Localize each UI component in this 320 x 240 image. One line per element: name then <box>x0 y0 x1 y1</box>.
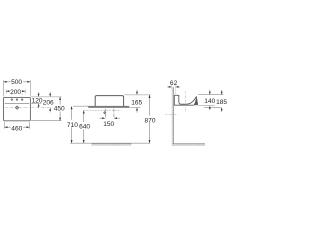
tap hole mid <box>16 99 18 101</box>
svg-text:120: 120 <box>32 98 43 105</box>
basin profile inner <box>174 95 196 104</box>
svg-text:206: 206 <box>43 100 54 107</box>
svg-text:870: 870 <box>144 117 155 124</box>
dim 200 <box>6 90 25 92</box>
svg-text:640: 640 <box>79 123 90 130</box>
dim 150 <box>99 117 119 119</box>
dim 165 <box>136 90 138 93</box>
svg-text:710: 710 <box>67 122 78 129</box>
extension lines 460 <box>4 122 29 129</box>
svg-text:140: 140 <box>204 98 215 105</box>
dim 206 <box>49 92 51 95</box>
svg-text:62: 62 <box>170 80 178 87</box>
dim 120 <box>38 92 40 95</box>
floor line front <box>70 142 150 144</box>
dim 450 <box>59 97 61 121</box>
basin vertical centerline <box>185 91 187 112</box>
dim 185 <box>221 90 223 93</box>
basin profile outer <box>174 95 194 105</box>
drain diamond front <box>104 112 106 114</box>
centerline through drain <box>5 107 52 109</box>
drain centerline <box>104 109 106 119</box>
dim 62 extension dashes <box>172 85 176 95</box>
hole extension dashes <box>12 94 22 97</box>
svg-text:500: 500 <box>11 79 22 86</box>
svg-text:150: 150 <box>103 121 114 128</box>
svg-text:460: 460 <box>11 125 22 132</box>
counter bottom extension <box>130 106 141 108</box>
floor hatch front <box>92 144 132 146</box>
basin outline plan <box>4 97 31 120</box>
dim 62 <box>167 86 169 88</box>
dim 710 <box>71 106 73 143</box>
svg-text:165: 165 <box>131 99 142 106</box>
floor band side <box>173 144 205 146</box>
dim 460 <box>4 126 29 128</box>
dim 640 <box>83 110 85 143</box>
svg-text:450: 450 <box>54 106 65 113</box>
tap hole right <box>21 99 23 101</box>
inner rim line <box>5 103 30 105</box>
counter front dark edge <box>88 106 129 108</box>
rim top extension <box>124 94 151 96</box>
drain <box>16 106 19 109</box>
svg-text:200: 200 <box>10 89 21 96</box>
bottom extension line right <box>31 120 61 122</box>
basin bottom extension side <box>198 105 215 107</box>
rim top extension side <box>198 94 223 96</box>
extension ticks 200 <box>6 89 25 93</box>
hidden dashed line <box>84 109 121 111</box>
inlet centerline <box>113 109 115 119</box>
basin front <box>95 96 123 107</box>
wall band <box>172 87 174 146</box>
lowest extension side <box>204 106 221 108</box>
counter top line <box>73 105 129 107</box>
tap hole left <box>11 99 13 101</box>
dim 140 <box>209 90 211 93</box>
svg-text:185: 185 <box>216 99 227 106</box>
outlet horizontal centerline <box>165 113 177 115</box>
dim 500 <box>4 81 31 83</box>
extension lines 500 <box>4 80 31 96</box>
inner line extension right <box>31 103 41 105</box>
top extension line right <box>31 96 61 98</box>
basin front wedge <box>194 96 198 105</box>
dim 870 <box>149 95 151 143</box>
